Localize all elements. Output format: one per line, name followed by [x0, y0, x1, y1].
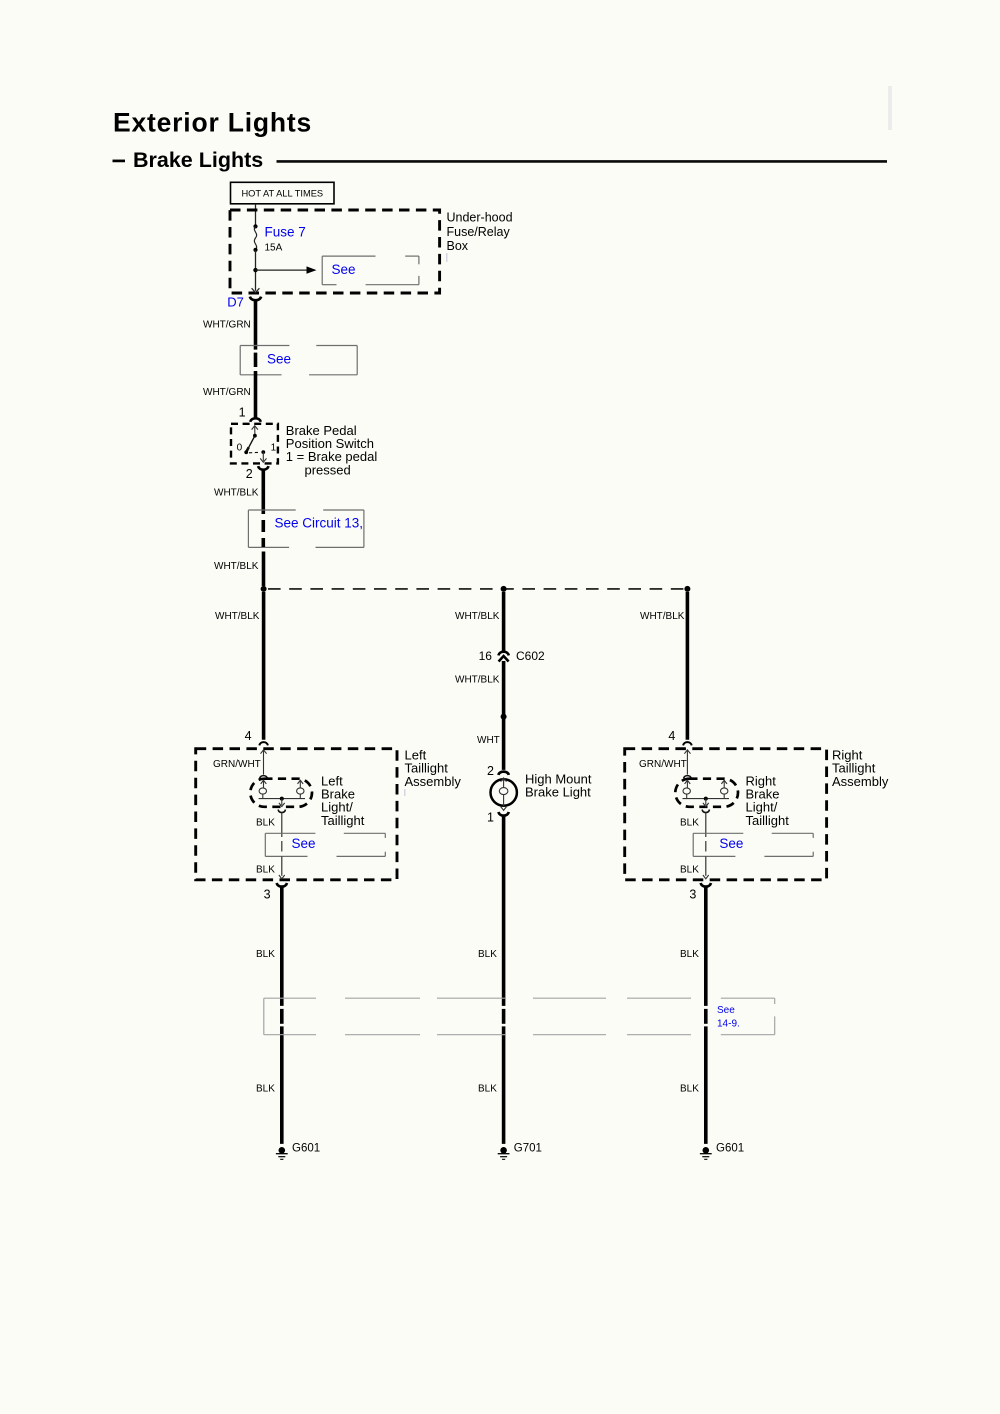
connector C602 male chevron [499, 656, 509, 662]
svg-text:WHT/GRN: WHT/GRN [203, 387, 251, 398]
svg-text:C602: C602 [516, 649, 545, 663]
pin 3 female cup left [277, 883, 287, 887]
pin 1 female cup high mount [498, 812, 508, 816]
svg-text:1: 1 [239, 406, 246, 420]
reference box See (inside fuse box) [322, 256, 419, 285]
svg-text:GRN/WHT: GRN/WHT [213, 759, 261, 770]
svg-text:BLK: BLK [256, 1083, 275, 1094]
wire D7 to See reference (WHT/GRN) [254, 300, 258, 350]
node right bulb common [704, 797, 708, 801]
svg-text:BLK: BLK [680, 949, 699, 960]
bulb socket cup right [684, 776, 692, 779]
pin 3 female cup right [701, 883, 711, 887]
svg-text:16: 16 [479, 649, 493, 663]
svg-text:WHT: WHT [477, 735, 500, 746]
faint page edge mark [888, 86, 892, 130]
pin 1 male arrow (into switch) [252, 426, 258, 430]
svg-text:BLK: BLK [478, 1083, 497, 1094]
svg-text:WHT/BLK: WHT/BLK [455, 611, 500, 622]
wire C602 to splice (WHT/BLK) [502, 661, 506, 770]
connector C602 female cup [498, 652, 508, 656]
right taillight assembly box (dashed) [625, 749, 827, 880]
svg-text:WHT/BLK: WHT/BLK [214, 561, 259, 572]
bulb socket male arrow left [261, 780, 267, 784]
svg-text:See Circuit 13,: See Circuit 13, [275, 515, 364, 530]
connector D7 male arrow [252, 288, 260, 292]
svg-text:Assembly: Assembly [832, 774, 889, 789]
subtitle tick dash [113, 160, 126, 163]
svg-text:BLK: BLK [680, 1083, 699, 1094]
arrow to internal reference [256, 269, 308, 271]
svg-text:4: 4 [245, 729, 252, 743]
svg-text:14-9.: 14-9. [717, 1018, 740, 1029]
wire fuse to connector D7 [255, 250, 257, 291]
wire pin 3 to ground right (BLK) [704, 886, 708, 1006]
fuse F7 (Fuse 7 15A) [253, 224, 257, 252]
reference box See (left assembly) [265, 833, 385, 856]
svg-text:2: 2 [487, 764, 494, 778]
svg-text:WHT/BLK: WHT/BLK [640, 611, 685, 622]
svg-text:Taillight: Taillight [321, 813, 365, 828]
left bulb exit arrow [281, 799, 283, 805]
svg-text:GRN/WHT: GRN/WHT [639, 759, 687, 770]
harness band reference box (See 14-9.) [264, 998, 775, 1034]
right bulb exit cup [702, 810, 709, 813]
faint artifact tick under Box [446, 253, 448, 262]
wire bulb to See reference left (BLK) [281, 813, 283, 837]
header rule [277, 160, 888, 163]
pin 4 female cup right [683, 742, 692, 745]
high mount socket male arrow [501, 778, 507, 782]
wire high mount to ground (BLK) [502, 815, 506, 1006]
svg-text:Exterior Lights: Exterior Lights [113, 108, 312, 138]
left bulb common rail [259, 798, 305, 800]
node middle splice [501, 714, 507, 720]
ground G601 left [279, 1147, 286, 1154]
wire See reference to pin 3 right (BLK) [705, 841, 707, 852]
svg-text:See: See [717, 1005, 735, 1016]
bulb socket cup left [260, 776, 268, 779]
connector D7 female cup [250, 297, 261, 301]
high mount exit arrow [501, 807, 507, 811]
svg-text:G601: G601 [292, 1143, 320, 1155]
pin 3 male arrow left [279, 875, 285, 879]
svg-text:1: 1 [487, 811, 494, 825]
pin 2 female cup [258, 466, 268, 470]
svg-text:D7: D7 [227, 294, 244, 309]
switch dashed travel line [249, 451, 261, 453]
ground G701 middle [500, 1147, 507, 1154]
left bulb filament 2 [298, 780, 304, 784]
wire to switch pin 1 (WHT/GRN) [254, 371, 258, 418]
right bulb filament 2 [721, 780, 727, 784]
left bulb filament 1 [263, 781, 265, 788]
brake pedal position switch (dashed box) [231, 424, 278, 464]
switch throw node 1 [261, 450, 265, 454]
svg-text:pressed: pressed [305, 462, 351, 477]
svg-text:Fuse/Relay: Fuse/Relay [447, 225, 511, 239]
reference box See Circuit 13 [248, 510, 364, 547]
left bulb exit cup [278, 810, 285, 813]
svg-text:Under-hood: Under-hood [447, 211, 513, 225]
pin 3 male arrow right [703, 875, 709, 879]
node splice junction middle [501, 586, 507, 592]
wire See reference to pin 3 left (BLK) [281, 841, 283, 852]
svg-text:4: 4 [668, 729, 675, 743]
wire middle branch to C602 (WHT/BLK) [502, 592, 506, 651]
svg-text:G601: G601 [716, 1143, 744, 1155]
svg-text:BLK: BLK [256, 817, 275, 828]
high mount filament [499, 788, 508, 795]
svg-text:See: See [292, 836, 316, 851]
high mount brake light bulb (circle) [491, 779, 517, 805]
switch lever [246, 436, 255, 452]
switch pivot node [253, 434, 257, 438]
svg-text:BLK: BLK [256, 864, 275, 875]
reference box See (harness) [240, 346, 357, 375]
svg-text:Brake Lights: Brake Lights [133, 148, 263, 172]
pin 4 male arrow into left assembly [261, 750, 267, 754]
under-hood fuse/relay box (dashed) [230, 210, 440, 293]
svg-text:WHT/BLK: WHT/BLK [455, 674, 500, 685]
svg-text:BLK: BLK [478, 949, 497, 960]
svg-text:2: 2 [246, 467, 253, 481]
svg-text:BLK: BLK [680, 864, 699, 875]
svg-text:0: 0 [237, 442, 243, 453]
wire dashed through reference box [254, 353, 258, 367]
switch throw node 0 [244, 450, 248, 454]
svg-text:Taillight: Taillight [746, 813, 790, 828]
right bulb common rail [683, 798, 730, 800]
right bulb filament 1 [686, 781, 688, 788]
svg-text:Box: Box [447, 239, 469, 253]
wire switch to See Circuit reference (WHT/BLK) [261, 469, 265, 514]
pin 2 female cup high mount [498, 772, 508, 775]
label box HOT AT ALL TIMES [231, 182, 335, 204]
wire dashed through reference box [261, 520, 265, 532]
svg-text:3: 3 [689, 887, 696, 901]
svg-text:G701: G701 [514, 1143, 542, 1155]
svg-text:See: See [332, 262, 356, 277]
node splice junction left [261, 586, 267, 592]
svg-text:BLK: BLK [680, 817, 699, 828]
pin 1 female cup [250, 418, 261, 422]
left taillight assembly box (dashed) [196, 749, 397, 880]
node fuse output junction [253, 268, 257, 272]
svg-text:BLK: BLK [256, 949, 275, 960]
svg-text:3: 3 [264, 887, 271, 901]
wire left branch to pin 4 (WHT/BLK) [262, 592, 266, 740]
svg-text:15A: 15A [265, 242, 283, 253]
wire to splice junction (WHT/BLK) [262, 552, 266, 587]
svg-text:1: 1 [271, 442, 277, 453]
svg-text:WHT/BLK: WHT/BLK [215, 611, 260, 622]
svg-text:WHT/BLK: WHT/BLK [214, 487, 259, 498]
node left bulb common [280, 797, 284, 801]
wire dashed bus to branches [268, 588, 687, 590]
pin 2 male arrow (out of switch) [262, 452, 264, 461]
svg-text:Assembly: Assembly [405, 774, 462, 789]
svg-text:See: See [719, 836, 743, 851]
node splice junction right [684, 586, 690, 592]
svg-text:Brake Light: Brake Light [525, 785, 591, 800]
faint artifact tick under Assembly [404, 789, 406, 796]
pin 4 female cup left [259, 742, 268, 745]
svg-text:WHT/GRN: WHT/GRN [203, 320, 251, 331]
pin 4 male arrow into right assembly [684, 750, 690, 754]
svg-text:See: See [267, 352, 291, 367]
left brake light bulb (dashed stadium) [250, 779, 312, 807]
wire right branch to pin 4 (WHT/BLK) [686, 592, 690, 740]
wire bulb to See reference right (BLK) [705, 813, 707, 837]
bulb socket male arrow right [685, 780, 691, 784]
ground G601 right [703, 1147, 710, 1154]
reference box See (right assembly) [693, 833, 813, 856]
svg-text:Fuse 7: Fuse 7 [265, 225, 306, 240]
wire pin 3 to ground left (BLK) [280, 886, 284, 1006]
right brake light bulb (dashed stadium) [675, 779, 738, 807]
right bulb exit arrow [705, 799, 707, 805]
svg-text:HOT AT ALL TIMES: HOT AT ALL TIMES [241, 189, 323, 199]
wire hot box to fuse 7 [255, 204, 257, 227]
